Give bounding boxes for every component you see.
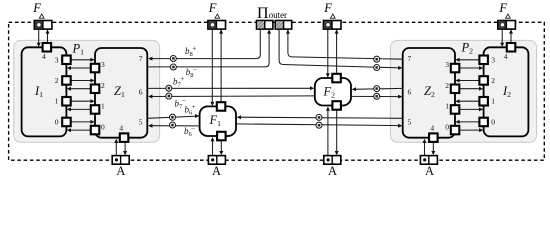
port 4 on I1 top [43, 43, 52, 52]
wire marker on b6- [170, 122, 176, 128]
wire up from port box [47, 30, 49, 44]
svg-text:F: F [323, 1, 332, 15]
wire up into box edge [115, 142, 117, 155]
wire down into box edge [327, 29, 329, 74]
port 1 on Z2 right [451, 105, 460, 114]
port on F2 bottom [332, 101, 341, 110]
wire b6+ : Z1 port 5 to F1 left edge [147, 116, 198, 118]
svg-text:2: 2 [55, 76, 59, 85]
wire up from port box [510, 30, 512, 44]
wire marker on b7+ [166, 85, 172, 91]
wire marker on b8- [170, 64, 176, 70]
A unit below F1 [208, 156, 225, 165]
wire Z1 port 0 to I1 edge [68, 129, 91, 131]
box Z1 [95, 48, 147, 138]
wire up into box edge [212, 141, 214, 156]
outer dashed boundary [9, 22, 545, 160]
svg-text:5: 5 [139, 118, 143, 127]
box Z2 [403, 48, 455, 138]
port 3 on I2 left [479, 56, 488, 65]
svg-text:1: 1 [491, 97, 495, 106]
box I1 [22, 47, 67, 136]
wire down from port box into A [336, 110, 338, 152]
svg-text:0: 0 [101, 122, 105, 131]
wire down from port box into A [124, 142, 126, 152]
wire b8- : Z1 port 7 to Pi_outer left unit [147, 34, 269, 67]
svg-text:1: 1 [101, 102, 105, 111]
port on F2 top [332, 74, 341, 83]
wire down from port box into A [432, 142, 434, 152]
wire I1 port 3 to Z1 edge [71, 59, 94, 61]
svg-text:4: 4 [430, 124, 434, 133]
svg-text:0: 0 [445, 122, 449, 131]
svg-text:7: 7 [139, 54, 143, 63]
wire : F1 right edge to Z2 port 5 [236, 124, 401, 126]
wire I2 port 2 to Z2 edge [457, 80, 480, 82]
wire up from port box [336, 30, 338, 74]
wire Z1 port 1 to I1 edge [68, 108, 91, 110]
wire Z2 port 0 to I2 edge [459, 129, 482, 131]
port 3 on Z1 left [91, 64, 100, 73]
wire Z1 port 2 to I1 edge [68, 88, 91, 90]
wire : Z2 port 5 to F1 right edge [238, 117, 403, 118]
box F2 [315, 78, 351, 106]
port 2 on I2 left [479, 76, 488, 85]
port 1 on I2 left [479, 97, 488, 106]
svg-text:F: F [208, 1, 217, 15]
wire marker on F1-Z2 wire upper [316, 114, 322, 120]
svg-text:A: A [425, 164, 434, 178]
wire I1 port 2 to Z1 edge [71, 80, 94, 82]
wire I2 port 0 to Z2 edge [457, 121, 480, 123]
svg-text:7: 7 [408, 54, 412, 63]
left group panel [14, 40, 160, 142]
wire marker on b8+ [170, 56, 176, 62]
svg-text:0: 0 [491, 117, 495, 126]
wire up into box edge [424, 142, 426, 155]
svg-text:2: 2 [101, 81, 105, 90]
Pi_outer right unit [275, 21, 291, 30]
wire down from port box into A [220, 140, 222, 151]
wire I1 port 1 to Z1 edge [71, 100, 94, 102]
port 0 on I1 right [62, 118, 70, 127]
port 2 on Z1 left [91, 85, 100, 94]
port 4 on Z1 bottom [120, 133, 129, 142]
wire b7+ : Z1 port 6 to F2 left edge [147, 87, 313, 89]
svg-text:3: 3 [101, 60, 105, 69]
F-triangle connector above I1 [34, 21, 52, 30]
wire up into box edge [327, 110, 329, 155]
wire marker on Z2 port7 lower [374, 65, 380, 71]
port 2 on I1 right [62, 76, 70, 85]
F-triangle connector above F1 [208, 21, 226, 30]
svg-text:A: A [116, 164, 125, 178]
port 4 on I2 top [507, 43, 516, 52]
svg-text:2: 2 [445, 81, 449, 90]
wire : F2 right edge to Z2 port 6 [351, 95, 401, 97]
F-triangle connector above F2 [323, 21, 341, 30]
svg-text:F: F [498, 1, 507, 15]
box I2 [484, 47, 529, 136]
wire b7- : F2 left edge to Z1 port 6 [149, 95, 315, 98]
svg-text:0: 0 [55, 117, 59, 126]
svg-text:1: 1 [445, 102, 449, 111]
box F1 [200, 106, 236, 136]
wire : Z2 port 6 to F2 right edge [353, 87, 403, 90]
A unit below Z2 [420, 156, 437, 165]
svg-text:4: 4 [119, 124, 123, 133]
svg-text:4: 4 [42, 52, 46, 61]
wire b6- : F1 left edge to Z1 port 5 [149, 125, 199, 127]
wire marker on Z2 port6 upper [374, 86, 380, 92]
wire : Pi_outer right unit to Z2 port 7 [279, 29, 401, 68]
svg-text:F: F [32, 1, 41, 15]
Pi_outer left unit [257, 21, 273, 30]
F-triangle connector above I2 [498, 21, 516, 30]
svg-text:5: 5 [408, 118, 412, 127]
svg-text:A: A [212, 164, 221, 178]
port 1 on Z1 left [91, 105, 100, 114]
svg-text:1: 1 [55, 97, 59, 106]
wire down into box edge [211, 29, 213, 102]
wire : Z2 port 7 to Pi_outer right unit [288, 34, 403, 60]
port on F1 top [217, 102, 226, 111]
port 4 on Z2 bottom [429, 133, 438, 142]
wire down into box edge [501, 29, 503, 43]
port 2 on Z2 right [451, 85, 460, 94]
svg-text:4: 4 [504, 52, 508, 61]
wire b8+ : Pi_outer left unit to Z1 port 7 [149, 29, 260, 59]
svg-text:3: 3 [491, 55, 495, 64]
svg-text:6: 6 [408, 87, 412, 96]
A unit below F2 [324, 156, 341, 165]
wire marker on F1-Z2 wire lower [316, 122, 322, 128]
port 3 on Z2 right [451, 64, 460, 73]
svg-text:3: 3 [55, 55, 59, 64]
svg-text:3: 3 [445, 60, 449, 69]
port 3 on I1 right [62, 56, 70, 65]
port 1 on I1 right [62, 97, 70, 106]
right group panel [390, 40, 536, 142]
wire Z2 port 3 to I2 edge [459, 67, 482, 69]
A unit below Z1 [112, 156, 129, 165]
wire marker on Z2 port6 lower [374, 93, 380, 99]
wire marker on Z2 port7 upper [374, 56, 380, 62]
wire marker on b6+ [170, 114, 176, 120]
port 0 on Z1 left [91, 126, 100, 135]
wire Z2 port 2 to I2 edge [459, 88, 482, 90]
wire down into box edge [38, 29, 40, 43]
wire I2 port 3 to Z2 edge [457, 59, 480, 61]
port 0 on I2 left [479, 118, 488, 127]
wire Z2 port 1 to I2 edge [459, 108, 482, 110]
svg-text:2: 2 [491, 76, 495, 85]
port 0 on Z2 right [451, 126, 460, 135]
wire I1 port 0 to Z1 edge [71, 121, 94, 123]
svg-text:A: A [328, 164, 337, 178]
wire up from port box [220, 30, 222, 103]
port on F1 bottom [217, 132, 226, 141]
wire Z1 port 3 to I1 edge [68, 67, 91, 69]
wire I2 port 1 to Z2 edge [457, 100, 480, 102]
wire marker on b7- [166, 93, 172, 99]
svg-text:6: 6 [139, 87, 143, 96]
